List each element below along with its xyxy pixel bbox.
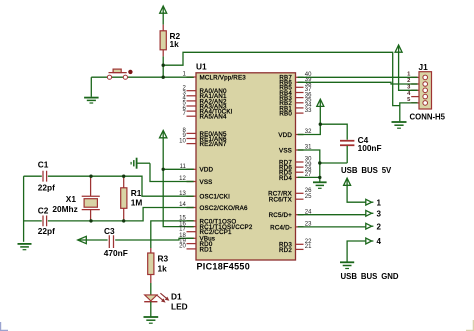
power flag (VCC) terminal 1 <box>344 178 366 202</box>
svg-text:1k: 1k <box>158 264 168 274</box>
svg-text:3: 3 <box>407 85 411 91</box>
U1 pin 33 (RB0) <box>279 108 312 118</box>
U1 pin 17 (RC2/CCP1) <box>179 226 232 236</box>
svg-text:VDD: VDD <box>278 132 292 139</box>
svg-text:J1: J1 <box>419 62 429 72</box>
svg-text:VSS: VSS <box>279 147 292 154</box>
resistor R3 <box>148 248 169 283</box>
svg-text:470nF: 470nF <box>104 248 128 258</box>
power flag (VCC) right VDD rail <box>317 99 324 124</box>
ground (terminal 4) <box>340 262 354 268</box>
svg-text:CONN-H5: CONN-H5 <box>410 113 446 122</box>
U1 pin 20 (RD1) <box>179 244 213 254</box>
capacitor C1 <box>24 160 91 193</box>
sheet corner mark bottom-left <box>1 322 9 331</box>
U1 pin 11 (VDD) <box>180 164 214 174</box>
node junction R2/staple <box>162 63 165 66</box>
ground (VSS / RD4) <box>313 182 327 188</box>
svg-text:3: 3 <box>377 210 382 219</box>
power flag (left arrow) at C3 <box>78 239 86 241</box>
U1 pin 15 (RC0/T1OSO) <box>179 216 236 226</box>
ground (below LED) <box>144 302 159 324</box>
U1 pin 14 (OSC2/CKO/RA6) <box>179 202 248 212</box>
svg-text:100nF: 100nF <box>358 143 382 153</box>
U1 pin 5 (RA3/AN3) <box>182 101 227 111</box>
svg-text:22pf: 22pf <box>38 226 55 236</box>
svg-text:4: 4 <box>407 91 411 97</box>
J1 pin 2 <box>407 78 427 86</box>
svg-text:1: 1 <box>377 198 382 207</box>
svg-text:OSC2/CKO/RA6: OSC2/CKO/RA6 <box>200 205 248 212</box>
svg-text:10: 10 <box>179 138 186 144</box>
wire terminal 4 to ground <box>347 241 366 262</box>
node junction RD4/VSS ground <box>318 176 321 179</box>
U1 pin 12 (VSS) <box>179 176 212 186</box>
svg-text:2: 2 <box>407 78 410 84</box>
svg-text:25: 25 <box>305 194 312 200</box>
U1 pin 9 (RE1/AN6) <box>182 133 227 143</box>
wire overlays on J1 wired stubs <box>411 77 417 103</box>
node junction X1 bottom <box>89 219 92 222</box>
wire overlays on wired pin stubs <box>187 77 304 238</box>
wire RC5/D+ to terminal 3 <box>298 214 366 216</box>
svg-text:VSS: VSS <box>200 179 213 186</box>
svg-text:U1: U1 <box>196 61 207 71</box>
svg-text:PIC18F4550: PIC18F4550 <box>197 261 251 271</box>
connector J1 CONN-H5 <box>410 62 446 122</box>
node junction R1 bottom <box>122 219 125 222</box>
svg-text:R1: R1 <box>131 188 142 198</box>
svg-text:R3: R3 <box>158 254 169 264</box>
U1 pin 38 (RB5) <box>279 82 312 92</box>
U1 pin 37 (RB4) <box>279 87 312 97</box>
svg-text:C2: C2 <box>38 205 49 215</box>
left rail (C1/C2 ground rail) <box>23 176 25 242</box>
terminal arrow 1 <box>366 198 382 207</box>
svg-text:USB BUS 5V: USB BUS 5V <box>341 166 392 175</box>
U1 pin 18 (VBus) <box>179 233 215 243</box>
wire R2 to MCLR junction <box>162 56 164 77</box>
node junction VDD right rail <box>319 123 322 126</box>
wire RD4 pin27 to ground <box>298 176 320 178</box>
node junction VSS right rail <box>318 161 321 164</box>
U1 pin 13 (OSC1/CKI) <box>179 191 230 201</box>
svg-text:RA5/AN4: RA5/AN4 <box>200 114 228 121</box>
svg-text:C1: C1 <box>38 160 49 170</box>
svg-text:1M: 1M <box>131 198 143 208</box>
U1 pin 1 (MCLR/Vpp/RE3) <box>182 72 246 82</box>
wire MCLR to J1 pin 5 <box>163 52 417 105</box>
U1 pin 3 (RA1/AN1) <box>182 91 227 101</box>
power flag (VCC) above R2 <box>160 6 167 25</box>
svg-text:14: 14 <box>179 202 186 208</box>
U1 pin 8 (RE0/AN5) <box>182 128 227 138</box>
ground (bottom left rail) <box>18 244 32 250</box>
U1 pin 26 (RC7/RX) <box>268 188 312 198</box>
svg-text:33: 33 <box>305 108 312 114</box>
svg-text:RC6/TX: RC6/TX <box>269 197 292 204</box>
svg-text:RC4/D-: RC4/D- <box>270 224 292 231</box>
svg-text:RC5/D+: RC5/D+ <box>269 212 293 219</box>
U1 pin 29 (RD6) <box>279 162 312 172</box>
wire C1 line to OSC1 <box>91 176 194 196</box>
ground (below J1) <box>392 106 407 129</box>
terminal arrow 2 <box>366 222 382 231</box>
svg-text:VDD: VDD <box>200 167 214 174</box>
ground (VSS pin 12, rotated left) <box>131 158 150 169</box>
svg-text:2: 2 <box>377 222 382 231</box>
svg-text:D1: D1 <box>171 292 182 302</box>
wire C2 line to OSC2 <box>91 208 194 221</box>
op-amp n/a: IC U1 PIC18F4550 body <box>196 61 296 271</box>
svg-text:7: 7 <box>182 111 186 117</box>
wire VDD junction to U1 pin 11 <box>163 168 194 170</box>
svg-text:RE2/AN7: RE2/AN7 <box>200 141 228 148</box>
U1 pin 4 (RA2/AN2) <box>182 96 227 106</box>
U1 pin 39 (RB6) <box>279 77 312 87</box>
wire VBus pin18 to C3 <box>115 238 194 240</box>
svg-text:MCLR/Vpp/RE3: MCLR/Vpp/RE3 <box>200 74 247 81</box>
wire VSS junction to C4 bottom <box>320 162 347 164</box>
U1 pin 36 (RB3) <box>279 92 312 102</box>
svg-text:12: 12 <box>179 176 186 182</box>
capacitor C4 <box>340 135 382 163</box>
node junction VDD pin11 <box>162 168 165 171</box>
U1 pin 25 (RC6/TX) <box>269 194 312 204</box>
U1 pin 21 (RD2) <box>279 244 312 254</box>
svg-text:RD2: RD2 <box>279 247 292 254</box>
resistor R2 <box>160 25 180 57</box>
U1 pin 35 (RB2) <box>279 98 312 108</box>
sheet corner mark bottom-right <box>466 320 474 331</box>
U1 pin 31 (VSS) <box>279 145 312 155</box>
svg-text:21: 21 <box>305 244 312 250</box>
node junction MCLR/button <box>162 76 165 79</box>
power flag (VCC) to J1 pin 3 <box>395 45 417 90</box>
wire RC0 pin15 to R3 <box>151 221 194 248</box>
svg-text:13: 13 <box>179 191 186 197</box>
power flag (VCC) for VDD pin 11 <box>160 130 167 169</box>
capacitor C3 <box>86 226 127 258</box>
U1 pin 16 (RC1/T1OSI/CCP2) <box>179 221 253 231</box>
capacitor C2 <box>24 205 91 236</box>
wire VDD pin32 rail <box>298 124 348 140</box>
J1 pin 4 <box>407 91 427 99</box>
svg-text:20Mhz: 20Mhz <box>52 204 77 214</box>
wire ground to button to U1 pin1 (MCLR) <box>91 76 194 78</box>
svg-text:4: 4 <box>377 237 382 246</box>
node junction X1 top <box>89 175 92 178</box>
U1 pin 30 (RD7) <box>279 157 312 167</box>
resistor R1 <box>121 176 143 221</box>
svg-text:RB0: RB0 <box>279 111 292 118</box>
U1 pin 28 (RD5) <box>279 167 312 177</box>
U1 pin 19 (RD0) <box>179 238 213 248</box>
wire RC4/D- to terminal 2 <box>298 226 366 228</box>
U1 pin 23 (RC4/D-) <box>270 222 312 232</box>
push button <box>107 69 132 79</box>
wire VSS pin 12 <box>150 163 194 181</box>
U1 pin 22 (RD3) <box>279 239 312 249</box>
J1 pin 5 <box>407 97 427 105</box>
U1 pin 24 (RC5/D+) <box>269 209 313 219</box>
U1 pin 2 (RA0/AN0) <box>182 85 227 95</box>
crystal X1 <box>52 176 99 221</box>
svg-text:C3: C3 <box>104 226 115 236</box>
U1 pin 32 (VDD) <box>278 129 312 139</box>
svg-text:X1: X1 <box>66 194 77 204</box>
U1 pin 40 (RB7) <box>279 72 312 81</box>
node junction R1 top <box>122 175 125 178</box>
U1 pin 34 (RB1) <box>279 103 312 113</box>
U1 pin 10 (RE2/AN7) <box>179 138 227 148</box>
U1 pin 7 (RA5/AN4) <box>182 111 227 121</box>
J1 pin 3 <box>407 85 427 93</box>
svg-text:11: 11 <box>180 164 187 170</box>
U1 pin 6 (RA4/T0CKI) <box>182 106 232 116</box>
ground (button) <box>84 77 99 103</box>
svg-text:20: 20 <box>179 244 186 250</box>
svg-text:LED: LED <box>171 302 188 312</box>
svg-text:5: 5 <box>407 97 411 103</box>
svg-text:1k: 1k <box>170 39 180 49</box>
svg-text:RD4: RD4 <box>279 175 292 182</box>
svg-text:RD1: RD1 <box>200 246 213 253</box>
LED D1 <box>144 283 187 312</box>
wire VSS pin31 rail <box>298 150 320 182</box>
svg-text:22pf: 22pf <box>38 183 55 193</box>
terminal arrow 4 <box>366 237 382 246</box>
svg-text:USB BUS GND: USB BUS GND <box>341 272 399 281</box>
U1 pin 27 (RD4) <box>279 172 312 182</box>
terminal arrow 3 <box>366 210 382 219</box>
svg-text:17: 17 <box>179 226 186 232</box>
wire RB6 to J1 pin 2 <box>298 82 418 84</box>
svg-text:OSC1/CKI: OSC1/CKI <box>200 194 231 201</box>
wire VDD junction to U1 pin 16 <box>163 169 194 226</box>
wire RB7 to J1 pin 1 <box>298 76 418 78</box>
J1 pin 1 <box>407 72 427 80</box>
